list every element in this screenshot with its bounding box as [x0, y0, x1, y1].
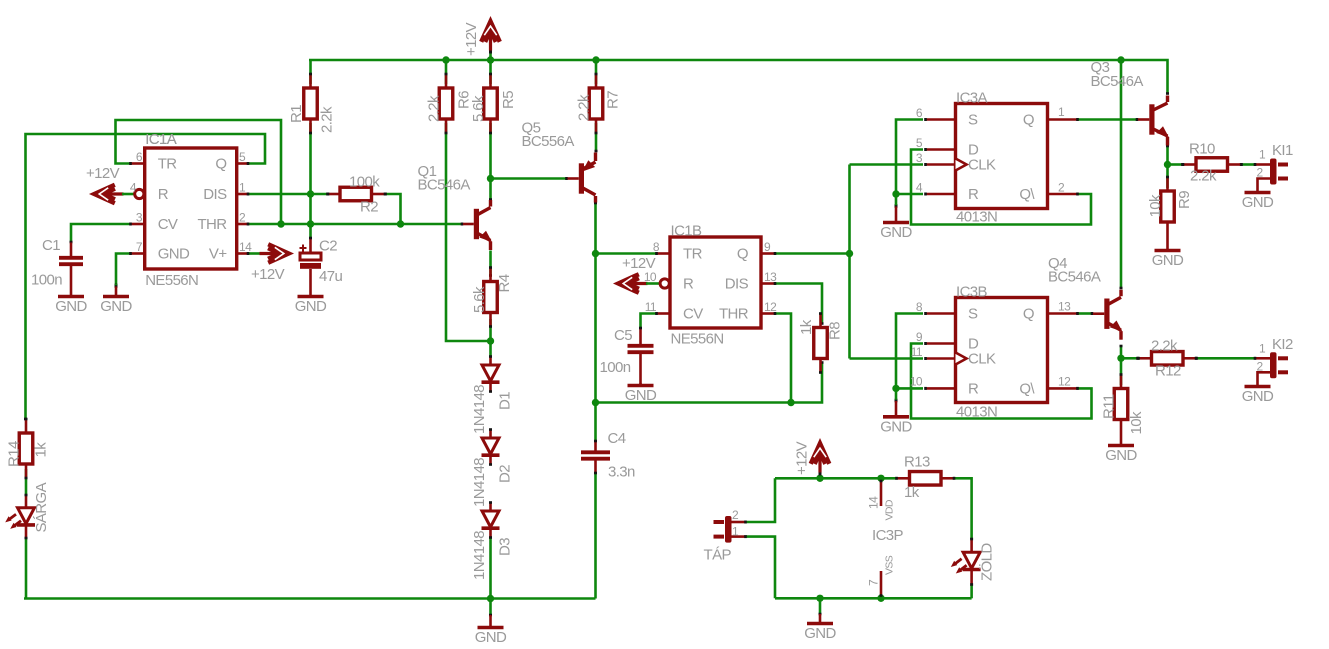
svg-text:7: 7	[136, 240, 143, 254]
svg-text:SÁRGA: SÁRGA	[33, 482, 50, 532]
svg-text:C1: C1	[42, 237, 60, 254]
resistor R1 2.2k	[288, 74, 336, 133]
resistor R5 5.6k	[470, 74, 517, 133]
wire IC3B D to Q\ loop	[911, 344, 1092, 419]
diode D3 lead	[489, 529, 492, 538]
svg-text:GND: GND	[1152, 252, 1184, 269]
C4 leads	[594, 441, 597, 473]
diode D1 1N4148	[471, 365, 514, 434]
svg-text:9: 9	[916, 330, 923, 344]
wire IC3A Q to Q3 base	[1078, 118, 1150, 121]
junction C4/THR loop	[592, 399, 599, 406]
IC1B pin 11 stub	[657, 312, 671, 315]
svg-text:3.3n: 3.3n	[608, 464, 635, 481]
IC1B pin numbers	[644, 240, 777, 314]
svg-text:GND: GND	[1105, 447, 1137, 464]
svg-text:10k: 10k	[1128, 411, 1145, 434]
svg-text:GND: GND	[880, 418, 912, 435]
IC3A pin names	[968, 112, 1035, 204]
wire IC1A Q to left bus	[24, 134, 265, 420]
svg-text:2: 2	[1058, 181, 1065, 195]
svg-text:S: S	[968, 306, 978, 323]
junction THR-R2	[397, 220, 404, 227]
IC3A pin 6 stub	[926, 118, 957, 121]
svg-text:1: 1	[239, 181, 246, 195]
junction IC3P rail/VDD	[877, 475, 884, 482]
svg-text:VDD: VDD	[884, 499, 896, 520]
IC3P pin 14 (VDD) stub	[880, 481, 883, 506]
LED ZOLD (green)	[951, 543, 996, 581]
wire R1 bottom to C2	[309, 123, 312, 238]
junction rail-R5/+12V	[487, 56, 494, 63]
ground below R9	[1152, 222, 1184, 269]
wire IC3B Q to Q4 base	[1078, 312, 1105, 315]
ground IC3P rail	[804, 600, 836, 642]
IC3B clock wedge	[956, 353, 967, 365]
svg-text:R13: R13	[904, 454, 930, 471]
KI2 pin 2 to GND	[1258, 372, 1271, 384]
junction IC3P rail/+12V	[816, 475, 823, 482]
wire R5 top to rail	[489, 60, 492, 84]
resistor R6 2.2k	[426, 74, 473, 133]
svg-text:CLK: CLK	[968, 157, 996, 174]
svg-text:R11: R11	[1101, 394, 1118, 419]
resistor R2 100k	[328, 174, 385, 216]
ground at IC1A pin 7	[100, 284, 132, 315]
wire IC3A R to ground	[896, 193, 923, 196]
IC3B pin names	[968, 306, 1035, 398]
svg-text:12: 12	[764, 300, 777, 314]
svg-text:BC546A: BC546A	[418, 177, 471, 194]
wire IC1B R pin to +12V	[646, 282, 660, 285]
+12V supply symbol at IC1B pin 10	[618, 274, 647, 293]
resistor R7 2.2k	[576, 74, 622, 133]
svg-text:4: 4	[916, 181, 923, 195]
IC3A clock wedge	[956, 159, 967, 171]
wire Q3 node to R10	[1168, 163, 1183, 166]
wire TAP pin 2 to +12V rail	[746, 478, 775, 522]
svg-text:R4: R4	[496, 274, 513, 292]
IC1A pin names	[158, 156, 228, 263]
IC1B pin 9 stub	[761, 252, 775, 255]
ground at KI1 pin 2	[1242, 190, 1274, 211]
IC1A pin 6 stub	[131, 162, 146, 165]
svg-text:R: R	[158, 186, 169, 203]
ground bottom mid rail	[475, 600, 507, 646]
+12V supply symbol top rail	[481, 21, 500, 60]
svg-text:100n: 100n	[31, 272, 62, 289]
junction rail-R7	[592, 56, 599, 63]
label +12V (IC1B pin 10)	[622, 255, 656, 272]
junction rail-R6	[442, 56, 449, 63]
wire D3 to ground rail	[489, 538, 492, 599]
svg-text:DIS: DIS	[203, 186, 227, 203]
svg-text:R10: R10	[1189, 141, 1215, 158]
ground at KI2 pin 2	[1242, 384, 1274, 405]
resistor R13 1k	[897, 454, 955, 502]
svg-text:GND: GND	[804, 625, 836, 642]
wire R6 top to rail	[445, 60, 448, 84]
svg-text:10: 10	[910, 375, 923, 389]
svg-text:100k: 100k	[349, 174, 380, 191]
junction DIS-R1	[307, 190, 314, 197]
svg-text:ZÖLD: ZÖLD	[978, 543, 996, 581]
wire R7 top to rail	[595, 60, 598, 84]
svg-text:2.2k: 2.2k	[426, 95, 443, 122]
svg-text:+12V: +12V	[622, 255, 656, 272]
junction rail-Q4 feed	[1117, 56, 1124, 63]
wire IC1A THR to Q1 base	[248, 223, 474, 226]
svg-text:CV: CV	[158, 216, 178, 233]
junction R4/R6/D1	[487, 337, 494, 344]
svg-text:+12V: +12V	[794, 441, 811, 475]
svg-text:GND: GND	[295, 298, 327, 315]
svg-text:14: 14	[239, 240, 252, 254]
svg-text:Q: Q	[1023, 112, 1034, 129]
svg-text:BC546A: BC546A	[1048, 269, 1101, 286]
IC3B pin 9 stub	[926, 342, 957, 345]
wire clock bus vertical	[848, 165, 851, 359]
junction IC3B R/gnd	[892, 385, 899, 392]
svg-text:DIS: DIS	[725, 276, 749, 293]
wire Q5 base feed	[491, 177, 579, 180]
svg-text:R2: R2	[360, 199, 378, 216]
svg-text:R8: R8	[827, 322, 844, 340]
svg-text:C4: C4	[608, 430, 626, 447]
svg-text:2: 2	[732, 508, 739, 522]
IC1B pin names	[683, 246, 749, 323]
svg-text:R14: R14	[6, 441, 23, 467]
svg-text:4: 4	[130, 181, 137, 195]
IC3A pin 4 stub	[926, 193, 957, 196]
TAP pin leads	[732, 521, 746, 539]
svg-text:TR: TR	[158, 156, 178, 173]
resistor R11 10k	[1101, 375, 1146, 435]
svg-text:5: 5	[239, 150, 246, 164]
svg-text:+12V: +12V	[463, 22, 480, 56]
svg-text:10k: 10k	[1147, 194, 1164, 217]
svg-text:7: 7	[867, 579, 881, 586]
svg-text:IC3B: IC3B	[956, 284, 988, 301]
C1 lead bottom	[70, 266, 73, 297]
wire R6 bottom to R4 bottom node	[446, 123, 488, 341]
svg-text:3: 3	[916, 151, 923, 165]
diode D1-D2 link	[489, 383, 492, 438]
label KI2	[1257, 336, 1293, 374]
IC body IC1B (NE556N)	[670, 223, 761, 348]
IC3B pin 11 stub	[926, 357, 957, 360]
IC3B pin numbers	[910, 300, 1071, 389]
wire Q1 emitter to R4	[489, 251, 492, 276]
svg-text:13: 13	[764, 270, 777, 284]
svg-text:1k: 1k	[904, 484, 920, 501]
svg-text:3: 3	[136, 211, 143, 225]
svg-text:GND: GND	[1242, 388, 1274, 405]
svg-text:R: R	[968, 186, 979, 203]
ground below C2	[295, 297, 327, 316]
wire R2 to THR node	[386, 193, 401, 223]
svg-text:+12V: +12V	[86, 165, 120, 182]
svg-text:1N4148: 1N4148	[471, 385, 488, 434]
wire IC1B DIS to R8 top	[775, 284, 824, 325]
IC3A pin numbers	[916, 105, 1065, 195]
ground below C1	[55, 297, 87, 316]
svg-text:IC1A: IC1A	[145, 131, 177, 148]
transistor Q3 BC546A (NPN)	[1149, 96, 1169, 146]
IC1A name label	[145, 131, 177, 148]
svg-text:R: R	[683, 276, 694, 293]
IC3P pin 7 (VSS) stub	[880, 571, 883, 596]
wire IC3A S to ground	[895, 120, 924, 206]
svg-text:5: 5	[916, 136, 923, 150]
junction R5/Q1 collector/Q5 base	[487, 175, 494, 182]
svg-text:14: 14	[867, 496, 881, 509]
resistor R4 5.6k	[471, 268, 513, 327]
junction IC3A R/gnd	[892, 190, 899, 197]
svg-text:9: 9	[764, 240, 771, 254]
svg-text:R9: R9	[1176, 191, 1193, 209]
svg-text:TR: TR	[683, 246, 703, 263]
transistor Q1 BC546A (NPN)	[474, 200, 492, 250]
label KI1	[1257, 142, 1293, 180]
svg-text:1: 1	[732, 525, 739, 539]
IC3A pin 1 stub	[1047, 118, 1078, 121]
svg-text:100n: 100n	[600, 359, 631, 376]
resistor R12 2.2k	[1139, 338, 1197, 380]
ground below R11	[1105, 419, 1137, 464]
svg-text:IC1B: IC1B	[671, 223, 703, 240]
connector TAP (supply input)	[714, 516, 732, 543]
IC3B pin 8 stub	[926, 312, 957, 315]
svg-text:6: 6	[136, 150, 143, 164]
wire TAP pin 1 to ground rail	[746, 537, 775, 599]
capacitor C1 100n	[31, 237, 83, 289]
svg-text:8: 8	[653, 240, 660, 254]
svg-text:C2: C2	[319, 238, 337, 255]
junction THR-TR loop	[277, 220, 284, 227]
IC1B pin 12 stub	[761, 312, 775, 315]
IC1A pin 7 stub	[131, 252, 146, 255]
svg-text:D3: D3	[497, 538, 514, 556]
svg-text:NE556N: NE556N	[145, 272, 198, 289]
diode D1 lead	[489, 357, 492, 366]
svg-text:CV: CV	[683, 306, 703, 323]
wire IC3B S to ground	[895, 314, 924, 401]
junction diode chain/ground rail	[487, 595, 494, 602]
wire IC1B CV to C5	[641, 314, 657, 330]
wire IC1A R pin to +12V	[122, 193, 134, 196]
wire Q3 emitter node	[1166, 146, 1169, 188]
svg-text:THR: THR	[719, 306, 749, 323]
IC body IC3A (4013N)	[956, 90, 1048, 226]
junction clock bus	[846, 250, 853, 257]
junction TR-B/Q5 collector	[592, 250, 599, 257]
capacitor C2 47u (polarized)	[300, 238, 343, 297]
junction Q3 emitter/R10/R9	[1164, 161, 1171, 168]
svg-text:47u: 47u	[319, 268, 342, 285]
svg-text:CLK: CLK	[968, 351, 996, 368]
wire +12V top rail	[309, 60, 1169, 94]
svg-text:V+: V+	[209, 246, 227, 263]
svg-text:2.2k: 2.2k	[1151, 338, 1178, 355]
label Q4	[1048, 255, 1101, 286]
IC3B pin 13 stub	[1047, 312, 1078, 315]
LED ZOLD leads	[970, 539, 973, 585]
svg-text:GND: GND	[158, 246, 190, 263]
transistor Q4 BC546A (NPN)	[1104, 290, 1122, 340]
IC body IC1A (NE556N)	[145, 131, 237, 289]
diode D2 1N4148	[471, 438, 514, 507]
IC1A pin 14 stub	[237, 252, 249, 255]
svg-text:GND: GND	[1242, 194, 1274, 211]
wire R7 bottom to Q5 emitter	[595, 123, 598, 152]
svg-text:IC3P: IC3P	[872, 527, 904, 544]
diode D3 1N4148	[471, 511, 514, 580]
svg-text:5.6k: 5.6k	[471, 286, 488, 313]
svg-text:11: 11	[911, 345, 923, 359]
svg-text:R12: R12	[1155, 363, 1181, 380]
IC3A pin 2 stub	[1047, 193, 1078, 196]
svg-text:1: 1	[1259, 148, 1266, 162]
wire IC1B THR loop to C4 node	[597, 314, 791, 403]
ground IC3A S/R	[880, 204, 912, 241]
svg-text:GND: GND	[475, 629, 507, 646]
label +12V (IC3P rail)	[794, 441, 811, 475]
wire R4 bottom to D1	[489, 319, 492, 356]
svg-text:IC3A: IC3A	[956, 90, 988, 107]
svg-text:2.2k: 2.2k	[1190, 168, 1217, 185]
svg-text:2.2k: 2.2k	[576, 94, 593, 121]
label Q5	[522, 120, 575, 151]
wire R14 to LED SARGA	[25, 469, 28, 495]
wire IC1A DIS to R2	[248, 193, 328, 196]
svg-text:11: 11	[645, 300, 657, 314]
svg-text:Q: Q	[1023, 306, 1034, 323]
wire THR node to R8 bottom	[791, 363, 824, 403]
wire R5 bottom / Q1 collector / Q5 base node	[489, 123, 492, 200]
svg-text:BC556A: BC556A	[522, 133, 575, 150]
svg-text:5.6k: 5.6k	[470, 95, 487, 122]
transistor Q5 BC556A (PNP)	[579, 153, 596, 203]
wire R10 to KI1	[1241, 163, 1256, 166]
svg-text:GND: GND	[625, 387, 657, 404]
IC1A pin 1 stub	[237, 193, 249, 196]
KI1 pin 1 lead	[1255, 163, 1270, 166]
IC1A pin numbers	[130, 150, 252, 254]
wire +12V to Q4 collector	[1120, 60, 1123, 288]
svg-text:Q\: Q\	[1019, 380, 1035, 397]
wire Q4 emitter node	[1120, 346, 1123, 385]
svg-text:Q: Q	[737, 246, 748, 263]
junction IC3P gnd/GND sym	[816, 595, 823, 602]
IC body IC3B (4013N)	[956, 284, 1048, 421]
svg-text:1N4148: 1N4148	[471, 458, 488, 507]
wire Q4 node to R12	[1121, 357, 1138, 360]
svg-text:1: 1	[1058, 105, 1065, 119]
wire LED SARGA to ground rail	[25, 539, 28, 599]
svg-text:2.2k: 2.2k	[319, 106, 336, 133]
junction THR-R1	[307, 220, 314, 227]
svg-text:2: 2	[1257, 360, 1264, 374]
IC3B pin 12 stub	[1047, 387, 1078, 390]
diode D2-D3 link	[489, 456, 492, 511]
svg-text:R: R	[968, 380, 979, 397]
svg-text:12: 12	[1058, 375, 1071, 389]
svg-text:D1: D1	[497, 392, 514, 410]
resistor R8 1k	[798, 314, 844, 373]
IC3A pin 3 stub	[926, 163, 957, 166]
svg-text:NE556N: NE556N	[671, 331, 724, 348]
junction Q4 emitter/R12/R11	[1117, 355, 1124, 362]
svg-text:VSS: VSS	[884, 555, 896, 575]
wire R12 to KI2	[1197, 357, 1257, 360]
IC1A pin 3 stub	[131, 223, 146, 226]
ground below C5	[625, 383, 657, 404]
wire clock feed to IC3A CLK	[850, 163, 924, 166]
wire C4 bottom to ground rail corner	[594, 474, 597, 599]
svg-text:BC546A: BC546A	[1091, 73, 1144, 90]
+12V supply symbol IC3P rail	[811, 443, 830, 478]
label +12V (top rail)	[463, 22, 480, 56]
svg-text:1k: 1k	[33, 442, 50, 458]
connector KI2	[1270, 352, 1288, 378]
IC1A pin 2 stub	[237, 223, 249, 226]
wire Q5 collector down the C4 column	[594, 203, 597, 442]
svg-text:1N4148: 1N4148	[471, 531, 488, 580]
junction THR loop/R8	[787, 399, 794, 406]
capacitor C5 100n	[600, 327, 654, 376]
svg-text:D2: D2	[497, 465, 514, 483]
svg-text:R7: R7	[605, 91, 622, 109]
wire IC1A V+ stub wire	[248, 252, 264, 255]
wire IC1A GND pin to ground	[115, 254, 131, 286]
LED SARGA (yellow)	[5, 482, 50, 532]
resistor R9 10k	[1147, 177, 1193, 222]
+12V supply symbol at IC1A pin 4	[94, 185, 123, 204]
+12V supply symbol at IC1A pin 14	[260, 244, 289, 263]
svg-text:KI2: KI2	[1272, 336, 1293, 353]
wire IC1A TR loop	[116, 120, 282, 222]
wire IC3P +12V rail	[775, 477, 896, 480]
wire C1 top lead	[70, 243, 73, 257]
label TAP	[704, 508, 740, 564]
IC1A pin 5 stub	[237, 162, 249, 165]
svg-text:4013N: 4013N	[956, 404, 997, 421]
svg-text:8: 8	[916, 300, 923, 314]
IC1A pin 4 bubble	[135, 189, 144, 198]
svg-text:S: S	[968, 112, 978, 129]
IC3B pin 10 stub	[926, 387, 957, 390]
svg-text:4013N: 4013N	[956, 209, 997, 226]
label Q3	[1091, 59, 1144, 90]
IC1B pin 10 bubble	[660, 279, 669, 288]
svg-text:6: 6	[916, 106, 923, 120]
KI1 pin 2 to GND	[1258, 179, 1271, 191]
svg-text:GND: GND	[100, 298, 132, 315]
wire LED ZOLD to ground rail	[970, 585, 973, 598]
IC3A pin 5 stub	[926, 148, 957, 151]
resistor R14 1k	[6, 419, 50, 478]
svg-text:2: 2	[239, 211, 246, 225]
ground IC3B S/R	[880, 399, 912, 436]
svg-text:C5: C5	[614, 327, 632, 344]
C5 leads	[639, 328, 642, 384]
wire clock feed to IC3B CLK	[850, 357, 924, 360]
svg-text:Q\: Q\	[1019, 186, 1035, 203]
wire R13 to LED ZOLD	[955, 478, 972, 539]
svg-text:TÁP: TÁP	[704, 547, 732, 564]
wire IC1B Q output	[775, 252, 850, 255]
